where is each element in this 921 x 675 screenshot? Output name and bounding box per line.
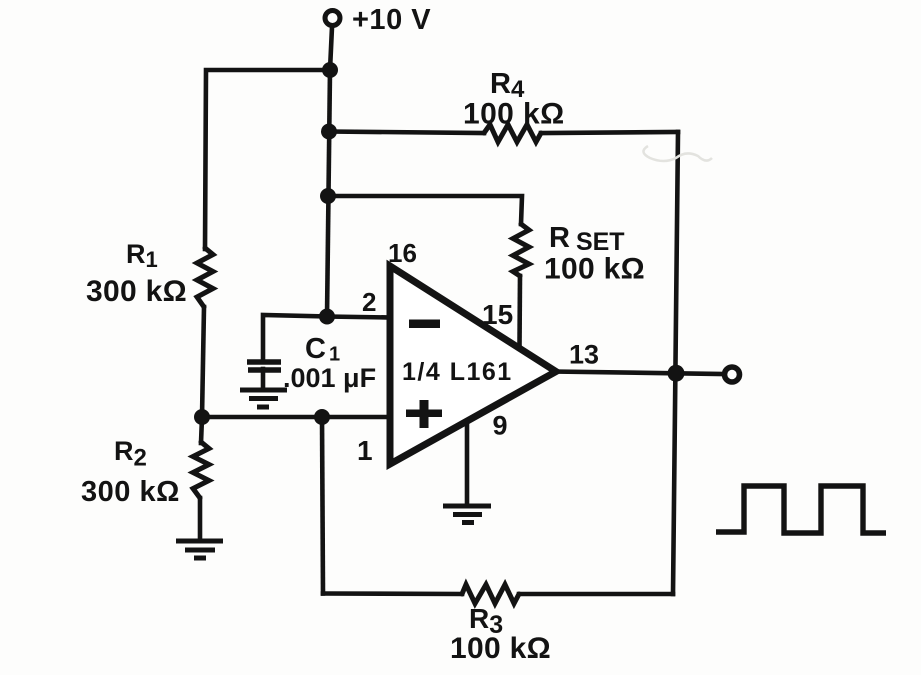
svg-text:100 kΩ: 100 kΩ [544, 253, 645, 286]
svg-text:13: 13 [569, 340, 599, 370]
svg-text:R1: R1 [126, 239, 158, 272]
svg-text:C1: C1 [305, 333, 340, 366]
svg-text:16: 16 [388, 238, 417, 268]
svg-text:1/4 L161: 1/4 L161 [402, 358, 513, 386]
svg-text:100 kΩ: 100 kΩ [463, 98, 565, 131]
svg-text:.001 μF: .001 μF [283, 363, 376, 393]
svg-text:100 kΩ: 100 kΩ [450, 632, 551, 665]
svg-text:300 kΩ: 300 kΩ [81, 476, 180, 508]
svg-text:R2: R2 [114, 436, 147, 472]
svg-text:1: 1 [357, 435, 373, 466]
svg-text:300 kΩ: 300 kΩ [86, 275, 187, 308]
svg-text:RSET: RSET [549, 222, 625, 256]
svg-text:2: 2 [362, 287, 376, 317]
svg-text:15: 15 [482, 299, 513, 330]
svg-text:+10 V: +10 V [352, 4, 431, 36]
svg-text:9: 9 [493, 411, 508, 441]
